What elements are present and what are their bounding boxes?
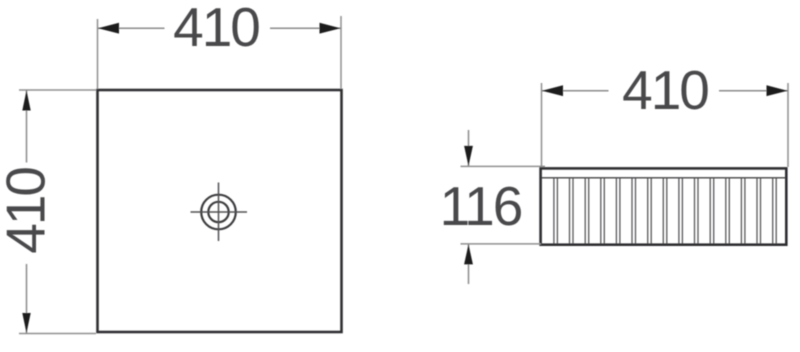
drain crosshair horizontal [191,211,248,213]
dimension line top 410 right segment [270,27,341,29]
116 upper arrow line [468,130,470,166]
dimension line top 410 left segment [98,27,165,29]
extension line top-left of side view [541,83,543,167]
116 lower arrow line [468,245,470,285]
basin plan view outline [98,90,342,332]
arrowhead left top [22,91,30,111]
dimension line left 410 upper segment [26,90,28,163]
svg-text:410: 410 [173,0,259,58]
116 lower arrowhead (up) [464,244,473,264]
extension line 116 top [461,165,546,167]
side view ribs [554,178,776,243]
side view body [541,168,787,244]
side view rim line [542,177,786,179]
arrowhead left bottom [22,313,30,333]
extension line top-left of plan [97,19,99,89]
arrowhead right view right [767,85,788,96]
drain inner circle [208,202,228,222]
extension line 116 bottom [461,243,542,245]
116 upper arrowhead (down) [464,146,473,166]
svg-text:410: 410 [622,59,708,121]
arrowhead top right [320,23,341,34]
drain outer circle [201,195,236,230]
dimension line left 410 lower segment [26,264,28,334]
drain crosshair vertical [218,183,220,242]
dimension line right 410 left segment [542,90,609,92]
svg-text:410: 410 [0,168,57,254]
extension line left-bottom of plan [19,333,96,335]
dimension line right 410 right segment [719,90,788,92]
arrowhead top left [98,23,119,34]
extension line left-top of plan [19,89,96,91]
svg-text:116: 116 [440,175,522,237]
arrowhead right view left [542,85,563,96]
extension line top-right of side view [787,83,789,167]
extension line top-right of plan [340,16,342,89]
